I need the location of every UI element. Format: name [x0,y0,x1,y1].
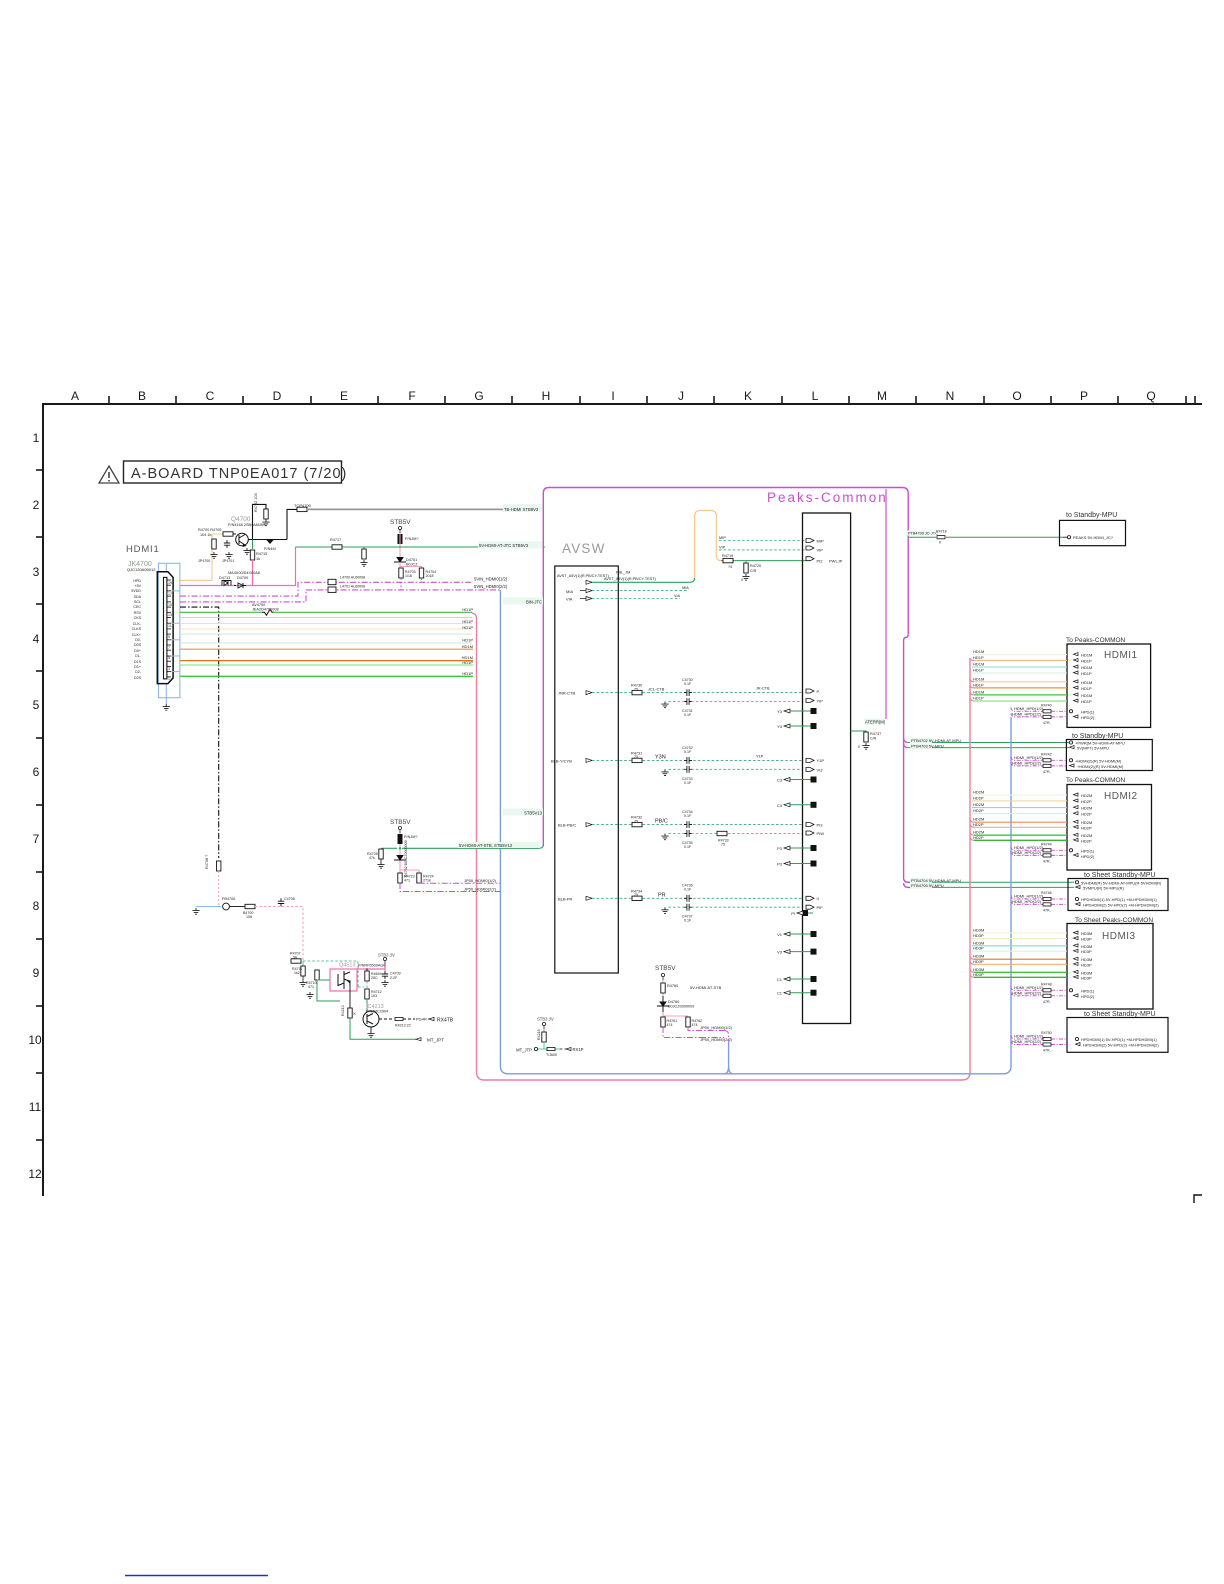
svg-text:HPD(1): HPD(1) [1081,709,1095,714]
pin circle MT_JTP [534,1047,537,1050]
power symbol STB5V bottom [661,973,664,980]
svg-text:PIW: PIW [817,831,825,836]
svg-text:12: 12 [28,1167,42,1181]
svg-text:P.: P. [817,689,820,694]
ground chD [668,906,685,908]
connector pin ticks [167,580,171,677]
resistor TCP4700 [297,507,307,511]
wire black loop R4702 [253,504,267,539]
ferrite bead FB4700 [223,903,230,910]
capacitor C4730 chA [684,689,692,696]
svg-text:11: 11 [168,624,172,628]
svg-text:HD1P: HD1P [462,638,473,643]
svg-text:AVSW: AVSW [562,541,606,556]
svg-text:0: 0 [741,578,743,582]
svg-text:PB/C: PB/C [655,819,668,825]
svg-text:VIP: VIP [719,545,726,549]
svg-text:CLK+: CLK+ [132,633,141,637]
wire green stub from Q4700 [252,540,254,550]
resistor R4737 [864,732,868,742]
HDMI2 pin arrows [1074,793,1079,841]
svg-text:R4740: R4740 [1041,703,1052,707]
svg-text:HDMI_HPD(1/2): HDMI_HPD(1/2) [1014,985,1044,990]
svg-text:5V-HDMI-AT-STB, STB5V13: 5V-HDMI-AT-STB, STB5V13 [459,843,513,848]
svg-text:JCL-CTB: JCL-CTB [648,687,665,692]
svg-text:HDMI_HPD(2/2): HDMI_HPD(2/2) [1012,990,1042,995]
svg-text:CLK-: CLK- [133,622,142,626]
svg-text:BLB-Y/CYB: BLB-Y/CYB [551,759,572,764]
wire dashed magenta JP btm1 [688,1027,724,1031]
svg-text:HPD(2): HPD(2) [1081,994,1095,999]
svg-text:8: 8 [33,899,40,913]
svg-text:PI2: PI2 [817,558,824,563]
svg-text:PTB4702 5V-HDMI-AT-MPU: PTB4702 5V-HDMI-AT-MPU [911,738,961,743]
svg-text:103: 103 [371,994,377,998]
wire pink to corner [255,907,303,962]
svg-text:RSV: RSV [134,611,142,615]
svg-text:MT_JTP: MT_JTP [516,1048,532,1053]
svg-text:R4760: R4760 [667,984,678,988]
blue HPD bus branch [724,1041,733,1074]
svg-text:0.1F: 0.1F [684,713,692,717]
svg-text:271k: 271k [423,879,431,883]
svg-text:25C: 25C [371,976,378,980]
svg-text:F: F [408,389,415,403]
svg-text:STB3.3V: STB3.3V [537,1017,554,1022]
wire TMDS pale cyan 1 [180,622,472,624]
wire pink STB3.3 [357,964,385,969]
capacitor C4734 chC [684,821,692,828]
capacitor C4737 chD [684,904,692,911]
svg-text:HD2P: HD2P [1081,812,1092,817]
svg-text:D: D [273,389,282,403]
svg-text:5V-HDMI-AT-JTC STB5V3: 5V-HDMI-AT-JTC STB5V3 [479,543,529,548]
svg-text:+5V: +5V [135,584,142,588]
svg-text:R4746: R4746 [1041,891,1052,895]
svg-text:HD1P: HD1P [973,682,984,687]
svg-text:C1: C1 [777,977,783,982]
title box A-BOARD TNP0EA017 (7/20) [124,461,348,483]
box to Sheet Standby-MPU 3 [1011,872,1168,912]
svg-text:D1+: D1+ [134,665,141,669]
svg-text:0.1F: 0.1F [684,888,692,892]
svg-text:HD3P: HD3P [973,959,984,964]
svg-text:HDMI_HPD(2/2): HDMI_HPD(2/2) [1012,760,1042,765]
svg-text:BIN-JTC: BIN-JTC [526,599,542,604]
svg-text:HD1P: HD1P [462,619,473,624]
svg-text:HPD: HPD [133,579,141,583]
wire to TCP4700 [287,509,297,539]
svg-text:HDMI1: HDMI1 [1104,650,1138,661]
ground R4710 [306,992,313,998]
svg-text:+HDMI(2)(R) 5V-HDMI(M): +HDMI(2)(R) 5V-HDMI(M) [1075,758,1122,763]
svg-text:BLB-PB/C: BLB-PB/C [558,823,576,828]
ground FB4700 [192,908,199,914]
svg-text:47R,: 47R, [1043,859,1051,863]
svg-text:R4719: R4719 [722,554,733,558]
net stub green row7 [516,812,543,814]
junction mark P/N [266,540,274,545]
bus hooks box2 [904,738,908,748]
svg-text:HD2M: HD2M [973,790,984,795]
wire TMDS bright green [180,675,473,677]
column letters [71,389,1156,403]
wire pink STB5V mid [400,833,419,874]
wire dashed RX out [379,1018,392,1020]
IC input pin arrows [806,539,814,910]
svg-text:JP50_HDMI0(1/2): JP50_HDMI0(1/2) [700,1025,733,1030]
svg-text:75: 75 [721,843,725,847]
svg-text:47R,: 47R, [1043,770,1051,774]
transistor pair Q4513 [338,971,350,989]
row ticks [36,470,43,1140]
resistor R4732 chC [632,822,642,826]
svg-text:56: 56 [293,955,297,959]
wire pink Q4701 to diode [399,533,401,557]
wire pink 5V net [180,547,296,586]
svg-text:HPDHDMI(2) 5V-HPD(2) +M-HPDHD: HPDHDMI(2) 5V-HPD(2) +M-HPDHDMI(2) [1083,1043,1159,1048]
svg-text:HD3P: HD3P [973,946,984,951]
resistor R4723 [398,873,402,883]
svg-text:D4713: D4713 [219,576,230,580]
svg-text:9: 9 [168,635,170,639]
svg-text:5V(MPT) 5V-MPU: 5V(MPT) 5V-MPU [1077,746,1109,751]
svg-text:ATERR(M): ATERR(M) [865,720,886,725]
svg-text:HD2M: HD2M [1081,806,1092,811]
wire chD2 dashed [691,906,803,908]
power symbol STB3.3V [383,957,386,964]
wire green 5V junction [381,847,397,849]
resistor R4731 chB [632,758,642,762]
ground R4700 [210,552,217,558]
svg-text:75: 75 [634,819,638,823]
resistor R4700 [212,539,216,549]
rose TMDS bus [472,613,970,1080]
svg-text:5VIN_HDMI0(1/2): 5VIN_HDMI0(1/2) [474,577,508,582]
net label 5V-HDMI-AT-STB [458,842,540,848]
svg-text:Peaks-Common: Peaks-Common [767,490,888,505]
svg-text:471: 471 [404,879,410,883]
svg-text:PTB4705 5V-MPU: PTB4705 5V-MPU [911,883,944,888]
svg-text:75: 75 [634,687,638,691]
svg-text:To Peaks-COMMON: To Peaks-COMMON [1066,777,1126,784]
border frame top rule [42,403,1202,1196]
svg-text:HD1M: HD1M [973,649,984,654]
svg-text:MIP: MIP [719,536,726,540]
svg-text:Y3N: Y3N [655,754,666,760]
svg-text:D2S: D2S [134,676,142,680]
svg-text:MT_JPT: MT_JPT [427,1038,444,1043]
svg-text:R4748: R4748 [1041,982,1052,986]
svg-text:+HDMI(2)(R) 5V-HDMI(M): +HDMI(2)(R) 5V-HDMI(M) [1077,764,1124,769]
svg-text:HD2P: HD2P [1081,825,1092,830]
svg-text:HD1P: HD1P [1081,658,1092,663]
wire dashed stubs to rows [401,578,422,591]
net arrow MT_JPT [416,1038,421,1041]
svg-text:R4742: R4742 [1041,752,1052,756]
svg-text:0.1F: 0.1F [684,750,692,754]
column ticks [109,396,1195,404]
svg-text:11: 11 [29,1100,42,1114]
svg-text:L4701 AL60008: L4701 AL60008 [340,585,365,589]
svg-text:HDMI_HPD(1/2): HDMI_HPD(1/2) [1014,894,1044,899]
svg-text:5VMPU(R) 5V-MPU(R): 5VMPU(R) 5V-MPU(R) [1083,885,1125,890]
svg-text:HD1P: HD1P [1081,686,1092,691]
svg-text:TCP4700: TCP4700 [294,503,312,508]
HDMI3 stub labels [973,928,984,977]
svg-text:J: J [678,389,684,403]
svg-text:D0+: D0+ [134,649,141,653]
rose bus hooks HDMI3 [970,955,974,977]
resistor R4710 [315,970,319,980]
svg-text:75: 75 [634,755,638,759]
wire chA2 dashed [691,701,803,703]
capacitor C4735 chC [684,830,692,837]
svg-text:Y3: Y3 [777,709,783,714]
wire green output MT_JPT [350,1018,416,1039]
svg-text:HD3M: HD3M [973,940,984,945]
wire TMDS salmon [180,648,473,650]
row numbers [28,431,42,1181]
svg-text:O: O [1012,389,1021,403]
HDMI1 TMDS stubs [972,655,1067,701]
svg-text:VIA: VIA [674,594,681,598]
svg-text:D0S: D0S [134,643,142,647]
resistor R4707 [291,959,301,963]
capacitor C4733 chB [684,766,692,773]
svg-text:HD3P: HD3P [1081,937,1092,942]
svg-text:VI3: VI3 [817,767,824,772]
svg-text:HD1P: HD1P [1081,671,1092,676]
svg-text:HD2P: HD2P [973,808,984,813]
svg-text:D2-: D2- [135,670,142,674]
resistor R4712 [366,981,368,989]
wire dashed magenta JP btm2 [663,1027,700,1038]
svg-text:AVST_A5V(1)(R,PB/CY-TEST): AVST_A5V(1)(R,PB/CY-TEST) [557,574,610,578]
svg-text:K: K [354,1012,357,1016]
svg-text:JEA2D4700008: JEA2D4700008 [252,608,279,612]
svg-text:Y1P: Y1P [756,755,764,759]
resistor R4734 chD [632,896,642,900]
power symbol STB3.3V right [542,1022,545,1029]
svg-text:VIP: VIP [817,548,824,553]
wire chC2 dashed [691,833,803,835]
svg-text:2.2F: 2.2F [390,976,398,980]
wire green junction top [399,546,401,548]
resistor R4760 [661,983,665,993]
svg-text:9: 9 [33,966,40,980]
svg-text:PEAKS 5V-HDMI_JC?: PEAKS 5V-HDMI_JC? [1073,535,1114,540]
svg-text:1: 1 [33,431,40,445]
svg-text:D4702 B0JCZ0000009: D4702 B0JCZ0000009 [404,840,408,877]
svg-text:A-BOARD TNP0EA017 (7/20): A-BOARD TNP0EA017 (7/20) [131,466,347,482]
svg-text:G: G [474,389,483,403]
svg-text:104 1k: 104 1k [200,533,212,537]
wire chB dashed [592,759,803,761]
svg-text:1: 1 [168,677,170,681]
svg-text:R4213: R4213 [341,1005,345,1016]
wire green pair to box3 [908,882,1074,887]
svg-text:PTB4700 JC-JTC: PTB4700 JC-JTC [908,532,938,536]
svg-text:HD1P: HD1P [1081,699,1092,704]
svg-text:B0JCZ: B0JCZ [406,563,418,567]
HDMI2 pin names [1081,793,1092,843]
svg-text:to Standby-MPU: to Standby-MPU [1066,512,1117,519]
svg-text:C/R: C/R [750,569,757,573]
svg-text:STB3.3V: STB3.3V [378,953,395,958]
resistor R4761 [661,1017,665,1027]
AVSW pin VIA [566,597,592,602]
svg-text:HPD(1): HPD(1) [1081,988,1095,993]
svg-text:HD1M: HD1M [1081,693,1092,698]
svg-text:MIA: MIA [682,586,689,590]
net labels box2 wires [910,738,932,744]
ferrite bead L4700 [328,579,336,584]
svg-text:474: 474 [692,1023,698,1027]
blue HPD bus [500,590,1011,1074]
AVSW block [555,566,619,973]
svg-text:HD3M: HD3M [1081,944,1092,949]
svg-text:B: B [138,389,146,403]
svg-text:P3: P3 [777,846,783,851]
resistor R4702 [264,509,268,519]
svg-text:AVST_A5V(1)(R,PB/CY-TEST): AVST_A5V(1)(R,PB/CY-TEST) [604,577,657,581]
diode D4760 [657,996,669,1012]
transistor Q4702 [398,834,403,844]
ground R4716 [360,560,367,566]
svg-text:HD1M: HD1M [462,644,473,649]
svg-text:MA4X00/D4X00A8: MA4X00/D4X00A8 [228,571,260,575]
diode D4713 [222,581,231,586]
svg-text:T/J600: T/J600 [546,1053,557,1057]
svg-text:HD1P: HD1P [462,660,473,665]
svg-text:R4715: R4715 [256,552,267,556]
wire MIA dashed [592,590,688,592]
HDMI2 HPD dashed pins [1011,842,1095,863]
svg-text:FB4700: FB4700 [222,897,235,901]
wire VIA dashed [592,598,680,600]
svg-text:HD3P: HD3P [1081,975,1092,980]
svg-text:P/NRF5500AGE: P/NRF5500AGE [358,964,386,968]
resistor R4725 [417,873,421,883]
resistor R4213 [395,1017,403,1020]
svg-text:3: 3 [33,565,40,579]
svg-text:V1: V1 [777,932,783,937]
svg-text:HD2P: HD2P [973,822,984,827]
wire blue FB [196,906,221,908]
svg-text:PI: PI [791,911,795,916]
wire gray TB net [307,508,505,510]
svg-text:2: 2 [33,498,40,512]
svg-text:?4: ?4 [728,565,732,569]
svg-text:HD3P: HD3P [973,933,984,938]
AVSW pin AVST out [586,580,592,584]
HDMI3 TMDS stubs [972,933,1067,977]
svg-text:To Peaks-COMMON: To Peaks-COMMON [1066,637,1126,644]
svg-text:C: C [206,389,215,403]
svg-text:HD2P: HD2P [1081,799,1092,804]
svg-text:HPDHDMI(1) 5V-HPD(1) +M-HPDHDM: HPDHDMI(1) 5V-HPD(1) +M-HPDHDMI(1) [1081,897,1157,902]
svg-text:JNR-CTB: JNR-CTB [558,691,575,696]
svg-text:HD1M: HD1M [973,689,984,694]
svg-text:HPD(2): HPD(2) [1081,715,1095,720]
svg-text:HD3M: HD3M [1081,931,1092,936]
box to Standby-MPU top [1060,512,1126,546]
ground R4737 [862,743,869,749]
resistor R4711 [302,961,304,966]
resistor R4717 on green [332,545,342,549]
svg-text:R4744: R4744 [1041,842,1052,846]
net stub BIN-JTC [516,601,543,603]
svg-text:HD1P: HD1P [462,671,473,676]
svg-text:P: P [1080,389,1088,403]
svg-text:HD1M: HD1M [1081,680,1092,685]
svg-text:Q4700: Q4700 [231,516,251,523]
wire to RX1P arrow [560,1048,566,1050]
svg-text:C4708: C4708 [284,897,295,901]
resistor B4700 [229,906,245,908]
net label BIN-JTC [503,598,543,605]
HDMI3 pin names [1081,931,1092,980]
svg-text:47k: 47k [369,856,375,860]
net arrow RX4TB [429,1017,434,1020]
svg-text:R4708 ?: R4708 ? [205,855,209,869]
svg-text:RX4TB: RX4TB [437,1018,454,1024]
svg-text:PTB4703 5V-MPU: PTB4703 5V-MPU [911,743,944,748]
svg-text:HD1P: HD1P [973,696,984,701]
svg-text:D1S: D1S [134,660,142,664]
wire pink stub to R4715 [252,560,254,586]
svg-text:R4718: R4718 [936,530,947,534]
pink dotted from R4708 [218,871,220,907]
svg-text:HD1P: HD1P [973,668,984,673]
net label row7 [503,809,543,816]
transistor Q4700 symbol [236,533,249,546]
capacitor C4709 [382,971,388,979]
svg-text:L4700 AL60008: L4700 AL60008 [340,575,365,579]
svg-text:1/16: 1/16 [405,574,412,578]
wire CEC dash-dot black [180,607,219,858]
wire HPD orange from connector pin19 [180,534,223,580]
HDMI3 block [1067,924,1153,1010]
HDMI2 stub labels [973,790,984,840]
channel B: AVSW pin BLB-Y/CYB [551,758,592,763]
svg-text:HDMI3: HDMI3 [1102,931,1136,942]
svg-text:PWLJP: PWLJP [829,558,843,563]
svg-text:5: 5 [168,656,170,660]
svg-text:SCL: SCL [134,600,141,604]
svg-text:D4700: D4700 [237,576,248,580]
ground chC [668,833,685,835]
svg-text:JP4700: JP4700 [198,559,210,563]
IC4213 symbol [363,1011,379,1027]
channel A: AVSW pin JNR-CTB [558,691,592,696]
ground Q4700 emitter [243,548,250,554]
svg-text:P/NJM?: P/NJM? [404,835,418,839]
net label TB-HDMI STB8V3 [503,504,543,512]
wire MIP dashed to IC [719,540,806,542]
svg-text:2018: 2018 [426,574,434,578]
resistor R4714 [366,968,368,970]
svg-text:C/R: C/R [870,737,877,741]
wire TMDS cream [180,628,472,630]
svg-text:HDMI_HPD(1/2): HDMI_HPD(1/2) [1014,706,1044,711]
svg-text:47R,: 47R, [1043,1049,1051,1053]
wire green upper link [317,979,330,981]
svg-text:HPD(2): HPD(2) [1081,854,1095,859]
svg-text:3: 3 [168,667,170,671]
svg-text:13: 13 [168,613,172,617]
